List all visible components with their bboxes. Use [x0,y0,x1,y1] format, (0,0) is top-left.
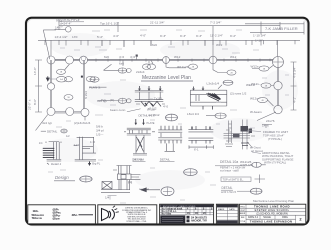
svg-text:DETAIL: DETAIL [222,186,233,190]
column bubble D [163,57,170,64]
mid callout 2 leader [98,100,118,102]
cross in bubble F [273,57,284,68]
below-beam callout 4 [189,64,198,69]
left dim vertical [35,60,42,112]
boxed note [221,177,251,181]
detail D bubble [166,114,178,121]
right bubble K [274,81,282,89]
mid callout 2 [118,98,127,103]
detail E2 underline [160,161,175,163]
circle 14-7 [66,27,72,33]
svg-text:14'-0": 14'-0" [33,67,37,75]
svg-text:{Bcw: {Bcw [53,217,61,221]
border frame [26,18,309,225]
svg-text:9'-3": 9'-3" [180,34,186,38]
detail H bracket [74,137,96,166]
logo D [102,206,119,221]
topleft underline [58,21,84,23]
right bubble r1 [250,162,266,167]
dark node drop [137,57,149,64]
svg-text:DETAIL: DETAIL [47,130,58,134]
svg-text:4'-6: 4'-6 [130,55,135,59]
design label [54,175,92,182]
svg-text:W12x—: W12x— [251,65,263,69]
titleblock text [240,205,302,224]
svg-text:W12x—: W12x— [250,96,262,100]
svg-text:(2)L3x3x1/4: (2)L3x3x1/4 [74,121,91,125]
schedule bottom dark [160,215,207,223]
svg-text:Mezzanine Level Framing Plan: Mezzanine Level Framing Plan [253,199,295,203]
svg-text:DATE: DATE [229,208,235,211]
C wedges [137,137,144,152]
svg-text:4'-0: 4'-0 [163,105,168,109]
svg-text:(2) SCHOOL RD, WOBURN: (2) SCHOOL RD, WOBURN [256,213,287,216]
paper mottling [42,33,298,190]
svg-text:(2) rows 1/2: (2) rows 1/2 [230,92,247,96]
pointer arrow [141,188,160,192]
svg-text:8'-0": 8'-0" [33,99,37,105]
dimension ticks [45,40,295,47]
svg-text:1'-10 3/4": 1'-10 3/4" [253,34,266,38]
right cross mark [255,175,266,184]
callout e3 [65,77,73,82]
dimension line top [59,22,280,45]
column bubble E [209,56,217,64]
strip box 2 [98,205,157,224]
svg-text:1/4: 1/4 [105,196,110,200]
bubble D cross [165,56,167,64]
bottom detail label [221,186,262,194]
svg-text:PLATE: PLATE [147,121,155,125]
svg-text:14'-7": 14'-7" [55,25,63,29]
detail B callout [223,80,233,85]
svg-text:STRUCTURAL - CIVIL: STRUCTURAL - CIVIL [126,220,147,223]
svg-text:9'-2": 9'-2" [230,34,236,38]
schedule text [162,207,214,215]
svg-text:1/2: 1/2 [66,134,70,138]
svg-text:24x76: 24x76 [266,119,275,123]
pointer bubble [161,187,174,196]
svg-text:6x6: 6x6 [60,79,63,81]
right note 2 [262,151,294,165]
svg-text:7Ebc.w: 7Ebc.w [32,216,43,220]
column bubble F big [273,57,284,68]
svg-text:DWG: DWG [282,217,288,219]
stamp text 1 [32,209,45,220]
detail M cross column [224,120,256,150]
detail C moment connection [124,119,155,155]
svg-text:22'-0" ±: 22'-0" ± [28,99,32,110]
C arrows [136,119,144,123]
svg-text:W12x—: W12x— [251,82,263,86]
svg-text:EXETER HIGH SCHOOL: EXETER HIGH SCHOOL [255,208,290,212]
strip box 4 [216,204,238,224]
C column [136,135,144,154]
detail A leader [127,109,141,112]
right callout f3 [258,97,268,102]
svg-text:Typ.16'-1 1/2": Typ.16'-1 1/2" [100,22,119,26]
main beam [50,59,278,60]
below-beam callout 2 [143,64,151,70]
cross in bubble E [212,56,214,64]
svg-text:7'-2 3/4": 7'-2 3/4" [210,21,221,25]
stamp dash [79,214,94,216]
svg-text:w/ Grout: w/ Grout [250,146,261,150]
svg-text:4x4 typ: 4x4 typ [42,121,52,125]
mid callout left [90,77,99,82]
leader to circle [55,29,66,31]
svg-text:1'-10": 1'-10" [255,39,263,43]
callout 1 twin [126,69,131,73]
right note 1 [263,130,288,141]
svg-text:1'-2: 1'-2 [128,181,133,185]
svg-text:SCALE: SCALE [263,216,271,219]
svg-text:(TYPICAL): (TYPICAL) [268,137,282,141]
detail L2 bolted beam [188,126,213,149]
callout e2 [57,76,67,82]
svg-text:ANCHOR, TYP.: ANCHOR, TYP. [191,219,208,222]
mid callout left label [90,86,107,88]
svg-text:4'-0": 4'-0" [140,34,146,38]
detail A braced beam [135,86,165,106]
svg-text:TOP of SHT'G EL.: TOP of SHT'G EL. [223,177,244,181]
detail E2 bolted beam [158,126,182,152]
dimension line 2 [38,39,300,41]
diagonal top-left [43,30,56,59]
strip box 1 [28,205,96,224]
detail K corner plan [101,166,141,193]
bubble H diagonal [36,115,48,131]
note under detail [220,166,246,173]
C flanges [127,128,151,135]
svg-text:Detail 1: Detail 1 [51,162,62,166]
svg-text:4'-6: 4'-6 [119,55,124,59]
svg-text:21'-11 3/4": 21'-11 3/4" [150,21,165,25]
svg-text:1/2—: 1/2— [96,133,104,137]
rotated dims left [28,67,297,110]
room bubble I [66,108,74,116]
detail M callout [206,113,226,119]
svg-text:Brg PL: Brg PL [92,162,100,166]
detail C underline [133,161,146,163]
svg-text:ADDR: ADDR [240,212,246,215]
column bubble C [80,56,88,64]
svg-text:2L6x4: 2L6x4 [136,70,145,74]
right callout leaders [252,66,274,107]
svg-text:1/4: 1/4 [39,141,43,145]
svg-text:PROJ: PROJ [240,206,245,208]
right diagonal [257,112,276,121]
bubble B leader [65,64,70,70]
mezzanine title [141,75,193,81]
room leader to ellipses [48,78,56,80]
strip box 3 schedule table [160,204,214,224]
detail bubble right [184,169,198,176]
right wall line [277,68,278,111]
left wall line [50,60,51,112]
svg-text:6x6: 6x6 [152,43,157,47]
scattered pencil marks [48,30,289,203]
note2 leader [252,152,261,154]
room bottom line [51,112,86,113]
detail label left [41,129,67,133]
svg-text:6x6: 6x6 [119,62,124,66]
svg-text:Mezzanine Level Plan: Mezzanine Level Plan [142,75,191,81]
callout e4 [64,95,73,101]
right small dim marks [262,125,272,129]
callout e1 [57,69,66,74]
detail K bottom marks [108,196,117,200]
svg-text:THOMAS LANE EXPANSION: THOMAS LANE EXPANSION [250,219,292,223]
below-beam callout 1 [118,68,127,73]
stamp text 3 [72,213,79,217]
jamb filler box [245,22,304,35]
right callout f1 [259,66,269,71]
detail label right [215,160,250,166]
svg-text:11'-2 1/4": 11'-2 1/4" [210,34,223,38]
mid callout 2 twin [126,99,131,103]
callout e5 [86,76,95,81]
right callout f2 [261,83,271,88]
leader 5 [213,64,227,73]
svg-text:4Bc.: 4Bc. [72,213,79,217]
svg-text:7-K JAMB FILLER: 7-K JAMB FILLER [265,26,298,31]
bottom bubble [250,188,262,194]
svg-text:No.4 ties: No.4 ties [162,212,172,215]
svg-text:L3x3x1/4: L3x3x1/4 [207,82,220,86]
dark node [136,55,138,57]
tiny ellipse labels [60,67,268,102]
svg-text:4'-0": 4'-0" [113,34,119,38]
svg-text:DETAIL x 1'6: DETAIL x 1'6 [139,114,156,118]
svg-text:Design: Design [55,175,69,180]
svg-text:9'-3": 9'-3" [160,34,166,38]
callout 1 leader [104,64,119,70]
logo address text [122,207,152,223]
svg-text:DETAIL 10a: DETAIL 10a [220,160,238,164]
right dim vertical [291,62,297,110]
svg-text:xxx brace - add'l: xxx brace - add'l [220,169,239,173]
below-beam leader [123,60,186,68]
sheet [26,18,309,225]
svg-text:DATE 3.4: DATE 3.4 [248,216,259,219]
strip box 5 titleblock [239,204,305,224]
svg-text:6x6: 6x6 [104,55,109,59]
room dark arrow [46,76,49,81]
svg-text:DETAIL: DETAIL [133,158,144,162]
svg-text:THOMAS LANE ROAD: THOMAS LANE ROAD [254,205,290,209]
svg-text:L6x4 1/4: L6x4 1/4 [187,112,199,116]
svg-text:DETAIL: DETAIL [160,158,171,162]
below-beam callout 5 [227,70,236,75]
detail B plate plan [190,85,227,110]
svg-text:3/4 DIA BOLTS: 3/4 DIA BOLTS [191,216,207,219]
mid wall line [83,60,84,112]
stamp text 2 [53,207,62,220]
svg-text:6'-1: 6'-1 [194,148,199,152]
design bubble [80,176,92,182]
column bubble B [66,56,74,64]
detail H texts [66,134,101,166]
svg-text:MARK: MARK [218,208,225,211]
svg-text:W12x26—: W12x26— [177,65,192,69]
beam hangers [96,59,270,62]
svg-text:9'-3": 9'-3" [196,34,202,38]
mid-wall dark square [81,76,83,78]
room bubble H [47,108,55,116]
room bubble J [81,108,89,116]
svg-text:W-beam: W-beam [250,110,262,114]
room bubble G [47,83,54,90]
below-beam callout 3 [148,64,156,70]
grid drops [51,40,278,56]
svg-text:ANCHOR BOLT + BASE PL SCHED: ANCHOR BOLT + BASE PL SCHED [163,205,196,208]
svg-text:W 10x: W 10x [147,108,156,112]
double ring on bubble C [81,56,86,61]
detail G hatched column [43,142,61,165]
svg-text:w/ R 1.5x1.5: w/ R 1.5x1.5 [221,190,236,194]
right bubble L [274,105,282,113]
bubble J stub [84,116,86,120]
svg-text:TITLE: TITLE [240,221,246,223]
svg-text:WITH (TYPICAL): WITH (TYPICAL) [264,161,286,165]
column bubble A [47,56,55,64]
right note leader [247,131,261,132]
